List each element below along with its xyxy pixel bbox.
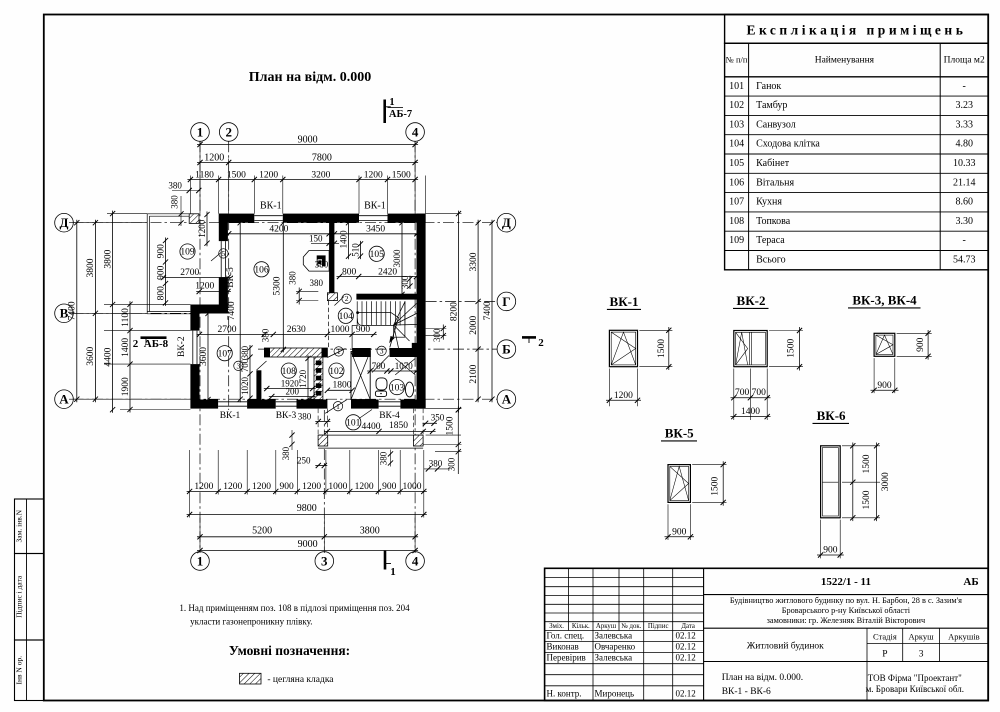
svg-text:510: 510 xyxy=(350,243,360,257)
svg-text:5200: 5200 xyxy=(252,525,272,536)
svg-text:Тераса: Тераса xyxy=(756,235,785,246)
svg-text:Овчаренко: Овчаренко xyxy=(595,642,636,652)
svg-text:Г: Г xyxy=(502,294,510,309)
svg-text:1800: 1800 xyxy=(333,381,352,391)
svg-text:700: 700 xyxy=(240,358,250,372)
svg-text:Аркуш: Аркуш xyxy=(596,623,617,630)
svg-text:- цегляна кладка: - цегляна кладка xyxy=(267,675,334,685)
svg-text:2: 2 xyxy=(538,337,544,349)
svg-text:900: 900 xyxy=(279,482,294,492)
svg-text:900: 900 xyxy=(877,381,892,391)
svg-text:-: - xyxy=(963,235,966,246)
svg-text:2: 2 xyxy=(345,294,349,303)
svg-text:1: 1 xyxy=(389,97,394,108)
svg-text:Експлікація приміщень: Експлікація приміщень xyxy=(746,23,966,38)
svg-text:Топкова: Топкова xyxy=(756,216,791,227)
svg-text:380: 380 xyxy=(168,181,182,191)
svg-text:700: 700 xyxy=(752,388,767,398)
svg-text:А: А xyxy=(502,392,512,407)
svg-text:3600: 3600 xyxy=(86,346,96,365)
svg-text:укласти газонепроникну плівку.: укласти газонепроникну плівку. xyxy=(190,617,312,627)
svg-text:Вітальня: Вітальня xyxy=(756,177,794,188)
svg-text:1070: 1070 xyxy=(395,361,414,371)
svg-text:103: 103 xyxy=(729,119,744,130)
svg-text:ВК-3, ВК-4: ВК-3, ВК-4 xyxy=(852,293,917,308)
svg-text:-: - xyxy=(963,81,966,92)
svg-text:1: 1 xyxy=(197,124,204,139)
svg-text:1200: 1200 xyxy=(614,391,633,401)
svg-text:3: 3 xyxy=(321,553,328,568)
svg-text:ВК-1 - ВК-6: ВК-1 - ВК-6 xyxy=(722,687,771,697)
svg-text:1500: 1500 xyxy=(710,477,720,496)
svg-text:1500: 1500 xyxy=(862,490,872,509)
svg-text:7800: 7800 xyxy=(312,152,332,163)
svg-text:1: 1 xyxy=(390,566,396,578)
svg-text:107: 107 xyxy=(218,349,233,359)
svg-text:4400: 4400 xyxy=(362,422,381,432)
svg-text:380: 380 xyxy=(260,328,270,342)
svg-text:3.23: 3.23 xyxy=(955,100,973,111)
svg-text:380: 380 xyxy=(240,345,250,359)
svg-text:1500: 1500 xyxy=(392,170,411,180)
svg-text:ВК-1: ВК-1 xyxy=(220,411,241,421)
svg-text:ВК-1: ВК-1 xyxy=(364,201,386,212)
svg-text:3300: 3300 xyxy=(469,252,479,271)
svg-text:АБ: АБ xyxy=(963,576,978,588)
svg-text:5: 5 xyxy=(222,249,226,258)
svg-text:3800: 3800 xyxy=(360,525,380,536)
svg-text:9800: 9800 xyxy=(297,503,317,514)
svg-text:02.12: 02.12 xyxy=(676,631,696,641)
svg-text:3000: 3000 xyxy=(881,472,891,491)
svg-text:Санвузол: Санвузол xyxy=(756,119,796,130)
svg-text:4200: 4200 xyxy=(269,225,288,235)
svg-text:1500: 1500 xyxy=(446,416,456,435)
svg-text:1200: 1200 xyxy=(355,482,374,492)
svg-text:3: 3 xyxy=(380,346,384,355)
svg-text:2: 2 xyxy=(225,124,232,139)
svg-text:Аркушів: Аркушів xyxy=(948,632,980,642)
svg-text:м. Бровари Київської обл.: м. Бровари Київської обл. xyxy=(866,684,964,694)
svg-text:107: 107 xyxy=(729,197,744,208)
svg-text:А: А xyxy=(59,392,69,407)
svg-text:7400: 7400 xyxy=(483,301,493,320)
svg-text:Залевська: Залевська xyxy=(595,631,633,641)
svg-text:21.14: 21.14 xyxy=(953,177,976,188)
svg-text:ТОВ Фірма "Проектант": ТОВ Фірма "Проектант" xyxy=(868,673,962,683)
svg-text:Н. контр.: Н. контр. xyxy=(547,688,582,698)
svg-text:1200: 1200 xyxy=(364,170,383,180)
svg-text:Виконав: Виконав xyxy=(547,642,579,652)
svg-text:Гол. спец.: Гол. спец. xyxy=(547,631,585,641)
svg-text:Б: Б xyxy=(502,342,511,357)
svg-text:101: 101 xyxy=(346,419,361,429)
svg-text:1200: 1200 xyxy=(194,482,213,492)
svg-text:1500: 1500 xyxy=(787,338,797,357)
svg-text:1200: 1200 xyxy=(302,482,321,492)
svg-text:380: 380 xyxy=(281,446,291,460)
svg-text:3450: 3450 xyxy=(366,225,385,235)
svg-text:ВК-2: ВК-2 xyxy=(737,293,766,308)
svg-text:1850: 1850 xyxy=(389,421,408,431)
svg-text:4: 4 xyxy=(412,553,419,568)
svg-text:800: 800 xyxy=(156,286,166,301)
svg-text:1400: 1400 xyxy=(121,338,131,357)
svg-text:5300: 5300 xyxy=(272,276,282,295)
svg-text:1000: 1000 xyxy=(403,482,422,492)
svg-text:1720: 1720 xyxy=(298,369,308,388)
svg-text:8.60: 8.60 xyxy=(955,197,973,208)
svg-text:900: 900 xyxy=(823,546,838,556)
svg-text:2: 2 xyxy=(133,338,139,350)
svg-text:АБ-7: АБ-7 xyxy=(389,109,412,120)
svg-text:Тамбур: Тамбур xyxy=(756,100,787,111)
svg-text:4: 4 xyxy=(412,124,419,139)
svg-text:109: 109 xyxy=(729,235,744,246)
svg-text:Миронець: Миронець xyxy=(595,688,635,698)
svg-text:300: 300 xyxy=(447,457,457,471)
svg-text:Кільк.: Кільк. xyxy=(572,623,590,630)
svg-text:ВК-2: ВК-2 xyxy=(177,336,187,357)
svg-text:109: 109 xyxy=(180,248,195,258)
svg-text:2700: 2700 xyxy=(218,325,237,335)
svg-text:ВК-5: ВК-5 xyxy=(665,426,694,441)
svg-text:АБ-8: АБ-8 xyxy=(144,338,169,350)
svg-text:1: 1 xyxy=(337,347,341,356)
svg-text:4.80: 4.80 xyxy=(955,139,973,150)
svg-text:Перевірив: Перевірив xyxy=(547,653,586,663)
svg-text:02.12: 02.12 xyxy=(676,653,696,663)
svg-text:1200: 1200 xyxy=(223,482,242,492)
svg-text:2100: 2100 xyxy=(469,364,479,383)
svg-text:3.30: 3.30 xyxy=(955,216,973,227)
svg-text:900: 900 xyxy=(356,325,371,335)
svg-text:3800: 3800 xyxy=(103,249,113,268)
svg-text:300: 300 xyxy=(432,328,442,342)
svg-text:1020: 1020 xyxy=(240,377,250,396)
svg-text:300: 300 xyxy=(400,275,410,289)
svg-text:Аркуш: Аркуш xyxy=(908,632,934,642)
svg-text:1200: 1200 xyxy=(259,170,278,180)
svg-text:1: 1 xyxy=(197,553,204,568)
svg-text:1100: 1100 xyxy=(121,308,131,327)
svg-text:Д: Д xyxy=(60,215,69,230)
svg-text:№ док.: № док. xyxy=(621,623,641,630)
svg-text:106: 106 xyxy=(729,177,744,188)
svg-text:104: 104 xyxy=(729,139,744,150)
svg-text:8200: 8200 xyxy=(449,302,459,321)
svg-text:Броварського р-ну Київської об: Броварського р-ну Київської області xyxy=(782,606,911,615)
svg-text:380: 380 xyxy=(309,278,323,288)
svg-text:105: 105 xyxy=(729,158,744,169)
svg-text:Інв N ор.: Інв N ор. xyxy=(15,656,24,685)
svg-text:350: 350 xyxy=(431,412,445,422)
svg-text:План на відм. 0.000: План на відм. 0.000 xyxy=(249,70,371,85)
svg-text:106: 106 xyxy=(254,266,269,276)
svg-text:900: 900 xyxy=(916,337,926,352)
svg-text:1500: 1500 xyxy=(862,454,872,473)
svg-text:Д: Д xyxy=(502,215,511,230)
svg-text:1500: 1500 xyxy=(657,339,667,358)
svg-text:900: 900 xyxy=(672,527,687,537)
svg-text:1000: 1000 xyxy=(331,325,350,335)
svg-text:Площа м2: Площа м2 xyxy=(944,56,985,66)
svg-text:1500: 1500 xyxy=(227,170,246,180)
svg-text:900: 900 xyxy=(382,482,397,492)
svg-text:101: 101 xyxy=(729,81,744,92)
svg-text:1: 1 xyxy=(336,402,340,411)
svg-text:2630: 2630 xyxy=(287,325,306,335)
svg-text:380: 380 xyxy=(298,411,312,421)
svg-text:2420: 2420 xyxy=(378,267,397,277)
svg-text:ВК-4: ВК-4 xyxy=(379,411,400,421)
svg-text:Найменування: Найменування xyxy=(815,55,875,66)
svg-text:9000: 9000 xyxy=(298,539,318,550)
svg-text:Умовні позначення:: Умовні позначення: xyxy=(229,643,350,658)
svg-text:Стадія: Стадія xyxy=(873,632,897,642)
svg-text:Житловий будинок: Житловий будинок xyxy=(747,641,824,652)
svg-text:ВК-6: ВК-6 xyxy=(817,408,846,423)
svg-text:54.73: 54.73 xyxy=(953,255,976,266)
svg-text:№ п/п: № п/п xyxy=(726,55,748,65)
svg-text:800: 800 xyxy=(342,267,357,277)
svg-text:1400: 1400 xyxy=(741,407,760,417)
svg-text:900: 900 xyxy=(156,244,166,259)
svg-text:105: 105 xyxy=(370,250,385,260)
svg-text:1200: 1200 xyxy=(195,282,214,292)
svg-text:102: 102 xyxy=(329,367,344,377)
svg-text:700: 700 xyxy=(372,361,386,371)
svg-text:2000: 2000 xyxy=(469,315,479,334)
svg-text:108: 108 xyxy=(729,216,744,227)
svg-text:Всього: Всього xyxy=(756,255,786,266)
svg-text:замовники: гр. Железняк Віталі: замовники: гр. Железняк Віталій Вікторов… xyxy=(767,616,926,625)
svg-text:2700: 2700 xyxy=(180,268,199,278)
svg-text:ВК-5: ВК-5 xyxy=(226,267,236,288)
svg-text:Зам. інв.N: Зам. інв.N xyxy=(15,509,24,542)
svg-text:700: 700 xyxy=(735,388,750,398)
svg-text:ВК-3: ВК-3 xyxy=(276,411,297,421)
svg-text:Підпис і дата: Підпис і дата xyxy=(15,575,24,618)
svg-text:1900: 1900 xyxy=(121,377,131,396)
svg-text:1400: 1400 xyxy=(338,230,348,249)
svg-text:380: 380 xyxy=(315,259,329,269)
svg-text:3.33: 3.33 xyxy=(955,119,973,130)
svg-text:250: 250 xyxy=(297,456,311,466)
svg-text:4400: 4400 xyxy=(103,347,113,366)
svg-text:Зміх.: Зміх. xyxy=(549,623,564,630)
svg-text:Р: Р xyxy=(882,650,887,660)
svg-text:9000: 9000 xyxy=(298,134,318,145)
svg-text:1200: 1200 xyxy=(252,482,271,492)
svg-text:План на відм. 0.000.: План на відм. 0.000. xyxy=(722,673,803,683)
svg-text:380: 380 xyxy=(378,451,388,465)
svg-text:Дата: Дата xyxy=(681,623,695,630)
svg-text:3800: 3800 xyxy=(86,258,96,277)
svg-text:3200: 3200 xyxy=(311,170,330,180)
svg-text:ВК-1: ВК-1 xyxy=(610,294,639,309)
svg-text:1000: 1000 xyxy=(328,482,347,492)
svg-text:108: 108 xyxy=(282,367,297,377)
svg-text:150: 150 xyxy=(309,233,323,243)
svg-text:Сходова клітка: Сходова клітка xyxy=(756,139,820,150)
svg-text:Будівництво житлового будинку: Будівництво житлового будинку по вул. Н.… xyxy=(730,596,962,605)
svg-text:103: 103 xyxy=(390,383,405,393)
svg-text:3: 3 xyxy=(919,650,924,660)
svg-text:1180: 1180 xyxy=(195,170,214,180)
svg-text:1. Над приміщенням поз. 108 в: 1. Над приміщенням поз. 108 в підлозі пр… xyxy=(179,603,410,613)
svg-text:Підпис: Підпис xyxy=(648,623,669,630)
svg-text:3000: 3000 xyxy=(392,249,402,268)
svg-text:102: 102 xyxy=(729,100,744,111)
svg-text:Кабінет: Кабінет xyxy=(756,158,790,169)
svg-text:380: 380 xyxy=(287,271,297,285)
svg-text:Кухня: Кухня xyxy=(756,197,782,208)
svg-text:380: 380 xyxy=(170,195,180,209)
svg-text:1522/1 - 11: 1522/1 - 11 xyxy=(821,576,871,588)
svg-text:1200: 1200 xyxy=(204,152,224,163)
svg-text:02.12: 02.12 xyxy=(676,688,696,698)
svg-text:Залевська: Залевська xyxy=(595,653,633,663)
svg-text:Ганок: Ганок xyxy=(756,81,781,92)
svg-text:ВК-1: ВК-1 xyxy=(260,201,282,212)
svg-text:7400: 7400 xyxy=(227,301,237,320)
svg-text:02.12: 02.12 xyxy=(676,642,696,652)
svg-text:3600: 3600 xyxy=(199,347,209,366)
svg-text:104: 104 xyxy=(339,312,354,322)
svg-text:В: В xyxy=(60,306,69,321)
svg-text:10.33: 10.33 xyxy=(953,158,976,169)
